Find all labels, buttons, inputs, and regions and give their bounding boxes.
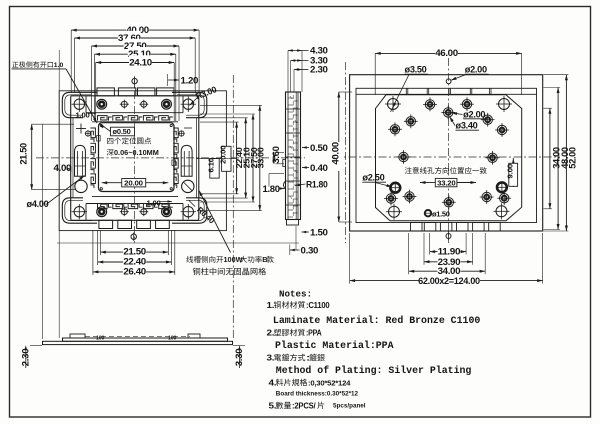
left view: module front face <box>62 88 207 229</box>
svg-text:Plastic Material:PPA: Plastic Material:PPA <box>275 340 394 351</box>
boxed dim 6.10 vertical <box>210 159 219 179</box>
svg-text:100W: 100W <box>224 255 243 264</box>
dim 22.40 right side <box>236 122 238 194</box>
inner die pad square <box>99 123 175 192</box>
bottom tabs <box>411 223 423 232</box>
note: four locating dots <box>107 138 113 144</box>
dim 11.90 <box>430 251 466 253</box>
svg-text:1.0: 1.0 <box>54 62 64 69</box>
dim 27.50 <box>92 45 180 47</box>
dim 48.00 far right <box>557 88 559 230</box>
svg-text:R1.80: R1.80 <box>306 180 328 190</box>
right view centerline vertical <box>448 58 450 243</box>
dim 34.00 far right <box>549 108 551 209</box>
right view inner plate <box>356 88 537 222</box>
projection line left <box>41 124 43 339</box>
boxed dim 20.00 under pad <box>102 182 122 184</box>
svg-text:ø4.00: ø4.00 <box>27 199 49 209</box>
dim 2.30 <box>294 69 309 71</box>
svg-text:4.: 4. <box>269 378 277 387</box>
bottom sprue mark <box>446 234 451 239</box>
dim 2.30 bottom view <box>25 347 27 368</box>
svg-text:100: 100 <box>96 336 105 342</box>
svg-text:1.50: 1.50 <box>310 227 328 237</box>
svg-text:3.60: 3.60 <box>271 146 281 164</box>
small cross markers upper-right <box>179 131 184 136</box>
dim 1.20 top tab <box>168 79 179 81</box>
panel split dash-dot line <box>232 75 234 338</box>
dim 37.60 <box>75 37 196 39</box>
hole o2.50 right <box>497 182 507 192</box>
middle view centerline <box>281 157 305 159</box>
svg-text::C1100: :C1100 <box>306 301 330 310</box>
dim 26.40 <box>93 271 175 273</box>
dim 62.00x2=124.00 <box>350 280 543 282</box>
dim 23.90 <box>424 261 473 263</box>
svg-text:1.: 1. <box>267 301 275 310</box>
note: positive side opening 1.0 <box>12 62 18 68</box>
svg-text:9.00: 9.00 <box>506 164 515 179</box>
left view horizontal centerline <box>36 157 271 159</box>
long extension line <box>57 242 299 244</box>
svg-text:33.00: 33.00 <box>256 147 266 168</box>
dim 1.50 <box>302 231 310 233</box>
dim 3.30 bottom view <box>239 347 241 368</box>
dim 40.00 left of right view <box>338 92 340 222</box>
dim 40.00 <box>71 29 199 31</box>
svg-text:ø0.50: ø0.50 <box>113 127 131 136</box>
bold terminal holes <box>97 99 107 109</box>
greek-key groove band right <box>173 128 178 142</box>
note: pay attention to wire hole direction <box>405 167 412 174</box>
dim 24.10 <box>96 62 175 64</box>
projection line far left <box>58 50 60 338</box>
bottom view: side profile bar <box>43 341 233 344</box>
svg-text:0.50: 0.50 <box>310 143 328 153</box>
left slot <box>75 145 86 176</box>
dim 33.00 right side <box>259 105 261 210</box>
corner ear pad bottom-left <box>62 198 97 223</box>
svg-text:62.00x2=124.00: 62.00x2=124.00 <box>418 276 480 286</box>
middle view left tab <box>283 160 286 167</box>
note: groove side text <box>186 256 193 263</box>
label box 0.50 <box>111 127 135 136</box>
corner ear pad top-left <box>62 92 97 117</box>
boxed dim 33.20 <box>420 182 435 184</box>
small cross markers upper-left <box>76 128 86 130</box>
top pin tabs <box>97 88 114 96</box>
svg-text:1.80: 1.80 <box>263 184 281 194</box>
dim 0.50 <box>302 147 309 149</box>
svg-text:20.00: 20.00 <box>218 146 227 164</box>
hole o2.50 left <box>390 183 400 193</box>
svg-text:46.00: 46.00 <box>435 48 458 58</box>
svg-text:B: B <box>262 255 267 264</box>
left view body outline <box>71 96 92 221</box>
svg-text:ø2.50: ø2.50 <box>362 173 384 183</box>
svg-text:24.10: 24.10 <box>129 57 152 67</box>
dim 4.30 <box>288 50 309 52</box>
panel unit outline around left view <box>59 91 226 231</box>
R1.80 fillet bump <box>284 181 286 189</box>
svg-text:3.: 3. <box>267 354 275 363</box>
svg-text:40.00: 40.00 <box>330 142 340 165</box>
dim 0.40 <box>302 167 309 169</box>
svg-text:2.30: 2.30 <box>310 65 328 75</box>
svg-text:2.: 2. <box>267 329 275 338</box>
right slot <box>181 145 192 176</box>
svg-text:Notes:: Notes: <box>279 288 312 299</box>
svg-text:4.00: 4.00 <box>54 163 72 173</box>
dim 0.30 <box>290 249 300 251</box>
corner screw holes right view <box>388 99 399 110</box>
small cross holes <box>121 101 127 107</box>
leader from open-side note <box>12 68 67 70</box>
dim 25.10 <box>95 53 176 55</box>
svg-text:Laminate Material: Red Bronze: Laminate Material: Red Bronze C1100 <box>273 315 480 326</box>
svg-text:0.30: 0.30 <box>301 245 319 255</box>
greek-key groove band bottom <box>98 204 112 209</box>
svg-text:1.20: 1.20 <box>181 76 199 86</box>
ear screw holes <box>74 99 84 109</box>
locating dots <box>100 124 102 126</box>
inner bottom rail <box>86 203 183 205</box>
dim 27.50 right side <box>252 114 254 202</box>
middle section view outline <box>286 92 301 220</box>
boxed dim 20.00 vertical <box>222 146 231 171</box>
wire holes grid <box>425 100 434 109</box>
dim 22.40 <box>98 261 172 263</box>
dim 3.30 <box>291 60 309 62</box>
top sprue circle <box>446 79 451 84</box>
bottom center mark <box>131 234 136 239</box>
middle view internal ticks <box>295 92 297 220</box>
panel edge dash-dot left of right view <box>345 62 347 243</box>
svg-text:Method of Plating: Silver Plat: Method of Plating: Silver Plating <box>276 365 472 376</box>
dim 34.00 <box>409 270 486 272</box>
svg-text:4.30: 4.30 <box>310 46 328 56</box>
svg-text:34.00: 34.00 <box>438 266 461 276</box>
hole o1.50 <box>425 210 431 216</box>
svg-text:0.06~0.10MM: 0.06~0.10MM <box>114 148 159 157</box>
right view outer plate <box>350 75 543 231</box>
bottom pin tabs <box>99 220 113 228</box>
right view octagon window <box>376 95 522 221</box>
svg-text::2PCS/: :2PCS/ <box>292 401 316 410</box>
svg-text:R3.00: R3.00 <box>194 84 218 101</box>
recessed edge lines <box>72 118 74 198</box>
top castellation band <box>356 93 537 95</box>
svg-text::: : <box>306 354 310 363</box>
svg-text:1.00: 1.00 <box>76 111 90 120</box>
dim 21.50 left vertical <box>31 124 33 190</box>
boxed dim 9.00 vertical <box>512 158 514 187</box>
left view vertical centerline <box>134 76 136 243</box>
svg-text:20.00: 20.00 <box>124 179 143 188</box>
middle view bottom step <box>287 220 299 226</box>
dim 46.00 <box>375 52 522 54</box>
svg-text::0,30*52*124: :0,30*52*124 <box>308 378 350 387</box>
dim 21.50 <box>100 251 168 253</box>
svg-text:3.30: 3.30 <box>234 348 244 366</box>
svg-text:52.00: 52.00 <box>568 147 578 169</box>
dim 52.00 far right <box>565 75 567 231</box>
svg-text:11.90: 11.90 <box>438 247 461 257</box>
svg-text:26.40: 26.40 <box>123 267 146 277</box>
bottom view dashed midline <box>85 335 190 337</box>
top center mark <box>132 78 137 83</box>
svg-text:Board thickness:0.30*52*12: Board thickness:0.30*52*12 <box>276 391 359 398</box>
svg-text:1.00: 1.00 <box>147 199 161 208</box>
svg-text:ø2.00: ø2.00 <box>465 65 487 75</box>
svg-text:5pcs/panel: 5pcs/panel <box>333 403 366 410</box>
svg-text:33.20: 33.20 <box>437 178 455 187</box>
svg-text:6.10: 6.10 <box>207 158 216 173</box>
svg-text:21.50: 21.50 <box>19 143 29 165</box>
svg-text:0.40: 0.40 <box>310 163 328 173</box>
right view centerline horizontal <box>334 156 561 158</box>
inner top rail <box>86 112 183 114</box>
dim 3.60 vertical <box>273 152 275 164</box>
svg-text:100: 100 <box>168 336 177 342</box>
svg-text:ø3.40: ø3.40 <box>456 121 478 131</box>
svg-text::PPA: :PPA <box>306 329 322 338</box>
leader to groove note <box>199 191 231 253</box>
svg-text:ø3.50: ø3.50 <box>405 65 427 75</box>
dim 25.10 right side <box>245 118 247 198</box>
svg-text:5.: 5. <box>269 401 277 410</box>
svg-text:ø2.00: ø2.00 <box>463 109 485 119</box>
svg-text:2.30: 2.30 <box>21 348 31 366</box>
extension verticals bottom <box>429 233 431 255</box>
corner ear pad bottom-right <box>172 198 207 223</box>
greek-key groove band left <box>90 128 95 142</box>
corner ear pad top-right <box>172 92 207 117</box>
svg-text:ø1.50: ø1.50 <box>432 209 450 218</box>
